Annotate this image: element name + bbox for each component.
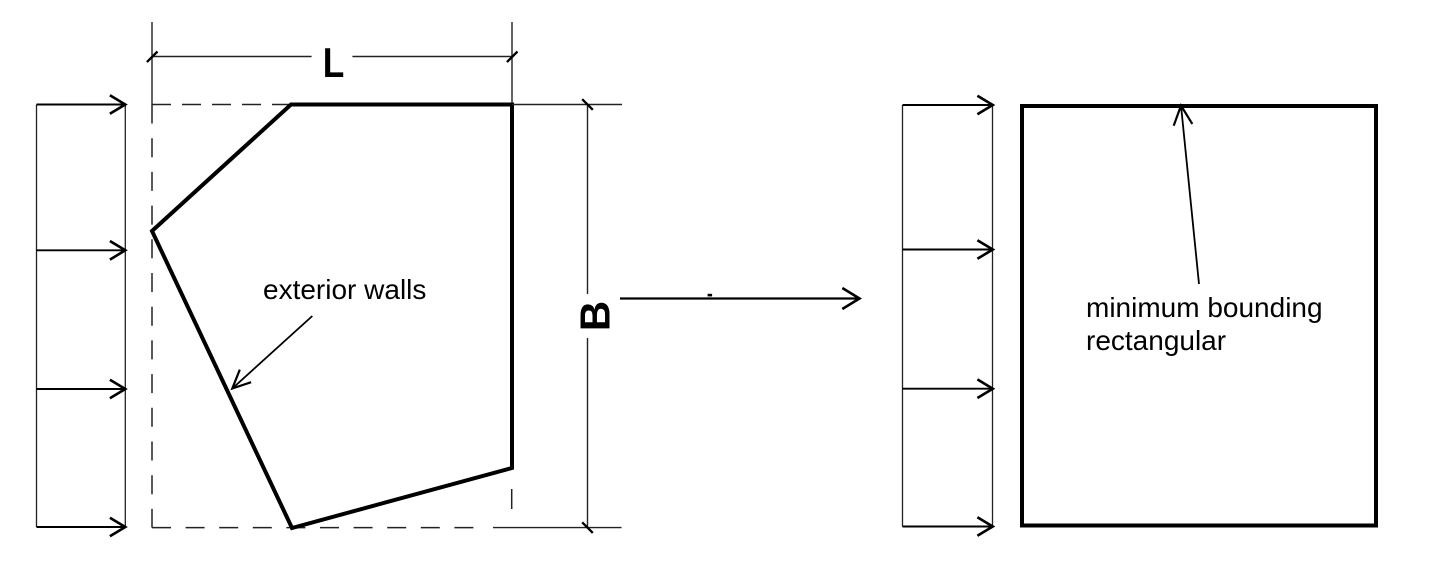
- wind arrow R1 head: [977, 96, 992, 115]
- svg-text:L: L: [323, 40, 345, 87]
- dashed bounding box right side fragment: [511, 489, 513, 509]
- minimum bounding rectangle: [1022, 106, 1376, 526]
- wind arrow L4 head: [110, 518, 125, 537]
- dashed bounding box left side: [151, 105, 153, 528]
- B dimension tick top: [582, 99, 593, 110]
- wind arrow R3 shaft: [903, 388, 993, 390]
- wind arrow R1 shaft: [903, 104, 993, 106]
- transform arrow head: [842, 288, 859, 309]
- svg-text:minimum bounding: minimum bounding: [1086, 292, 1323, 323]
- exterior walls leader line: [232, 316, 312, 389]
- B dimension top extension line: [512, 104, 622, 106]
- L dimension tick right: [507, 52, 518, 63]
- exterior walls polygon: [152, 105, 512, 529]
- wind arrow L1 head: [110, 95, 125, 114]
- B dimension line upper segment: [587, 105, 589, 295]
- minimum bounding leader arrowhead: [1174, 106, 1193, 126]
- L dimension line left segment: [152, 56, 312, 58]
- wind arrow R2 shaft: [903, 249, 993, 251]
- B dimension bottom extension line: [493, 527, 622, 529]
- wind arrow L2 shaft: [37, 249, 126, 251]
- L dimension left extension line: [151, 22, 153, 105]
- wind arrow R2 head: [977, 240, 992, 259]
- exterior walls leader arrowhead: [232, 370, 251, 389]
- dashed bounding box bottom side: [152, 527, 474, 529]
- dashed bounding box top side: [152, 104, 291, 106]
- wind load right rail (left line): [902, 105, 904, 527]
- B dimension line lower segment: [587, 338, 589, 528]
- minimum bounding leader line: [1181, 106, 1199, 285]
- svg-text:exterior walls: exterior walls: [263, 274, 426, 305]
- wind arrow R4 shaft: [903, 526, 993, 528]
- svg-text:B: B: [571, 301, 618, 331]
- wind arrow L3 head: [110, 380, 125, 399]
- wind arrow R4 head: [977, 517, 992, 536]
- svg-text:rectangular: rectangular: [1086, 325, 1226, 356]
- L dimension line right segment: [352, 56, 512, 58]
- wind arrow L3 shaft: [37, 388, 126, 390]
- transform arrow shaft: [620, 297, 858, 299]
- B dimension tick bottom: [582, 522, 593, 533]
- wind load left right rail: [124, 105, 126, 528]
- wind load right right rail: [992, 105, 994, 527]
- L dimension right extension line: [511, 22, 513, 103]
- wind arrow L4 shaft: [37, 526, 126, 528]
- wind arrow R3 head: [977, 379, 992, 398]
- wind arrow L2 head: [110, 241, 125, 260]
- wind load left rail (left line): [36, 105, 38, 528]
- stray dot above transform arrow: [708, 294, 713, 297]
- L dimension tick left: [147, 52, 158, 63]
- wind arrow L1 shaft: [37, 104, 126, 106]
